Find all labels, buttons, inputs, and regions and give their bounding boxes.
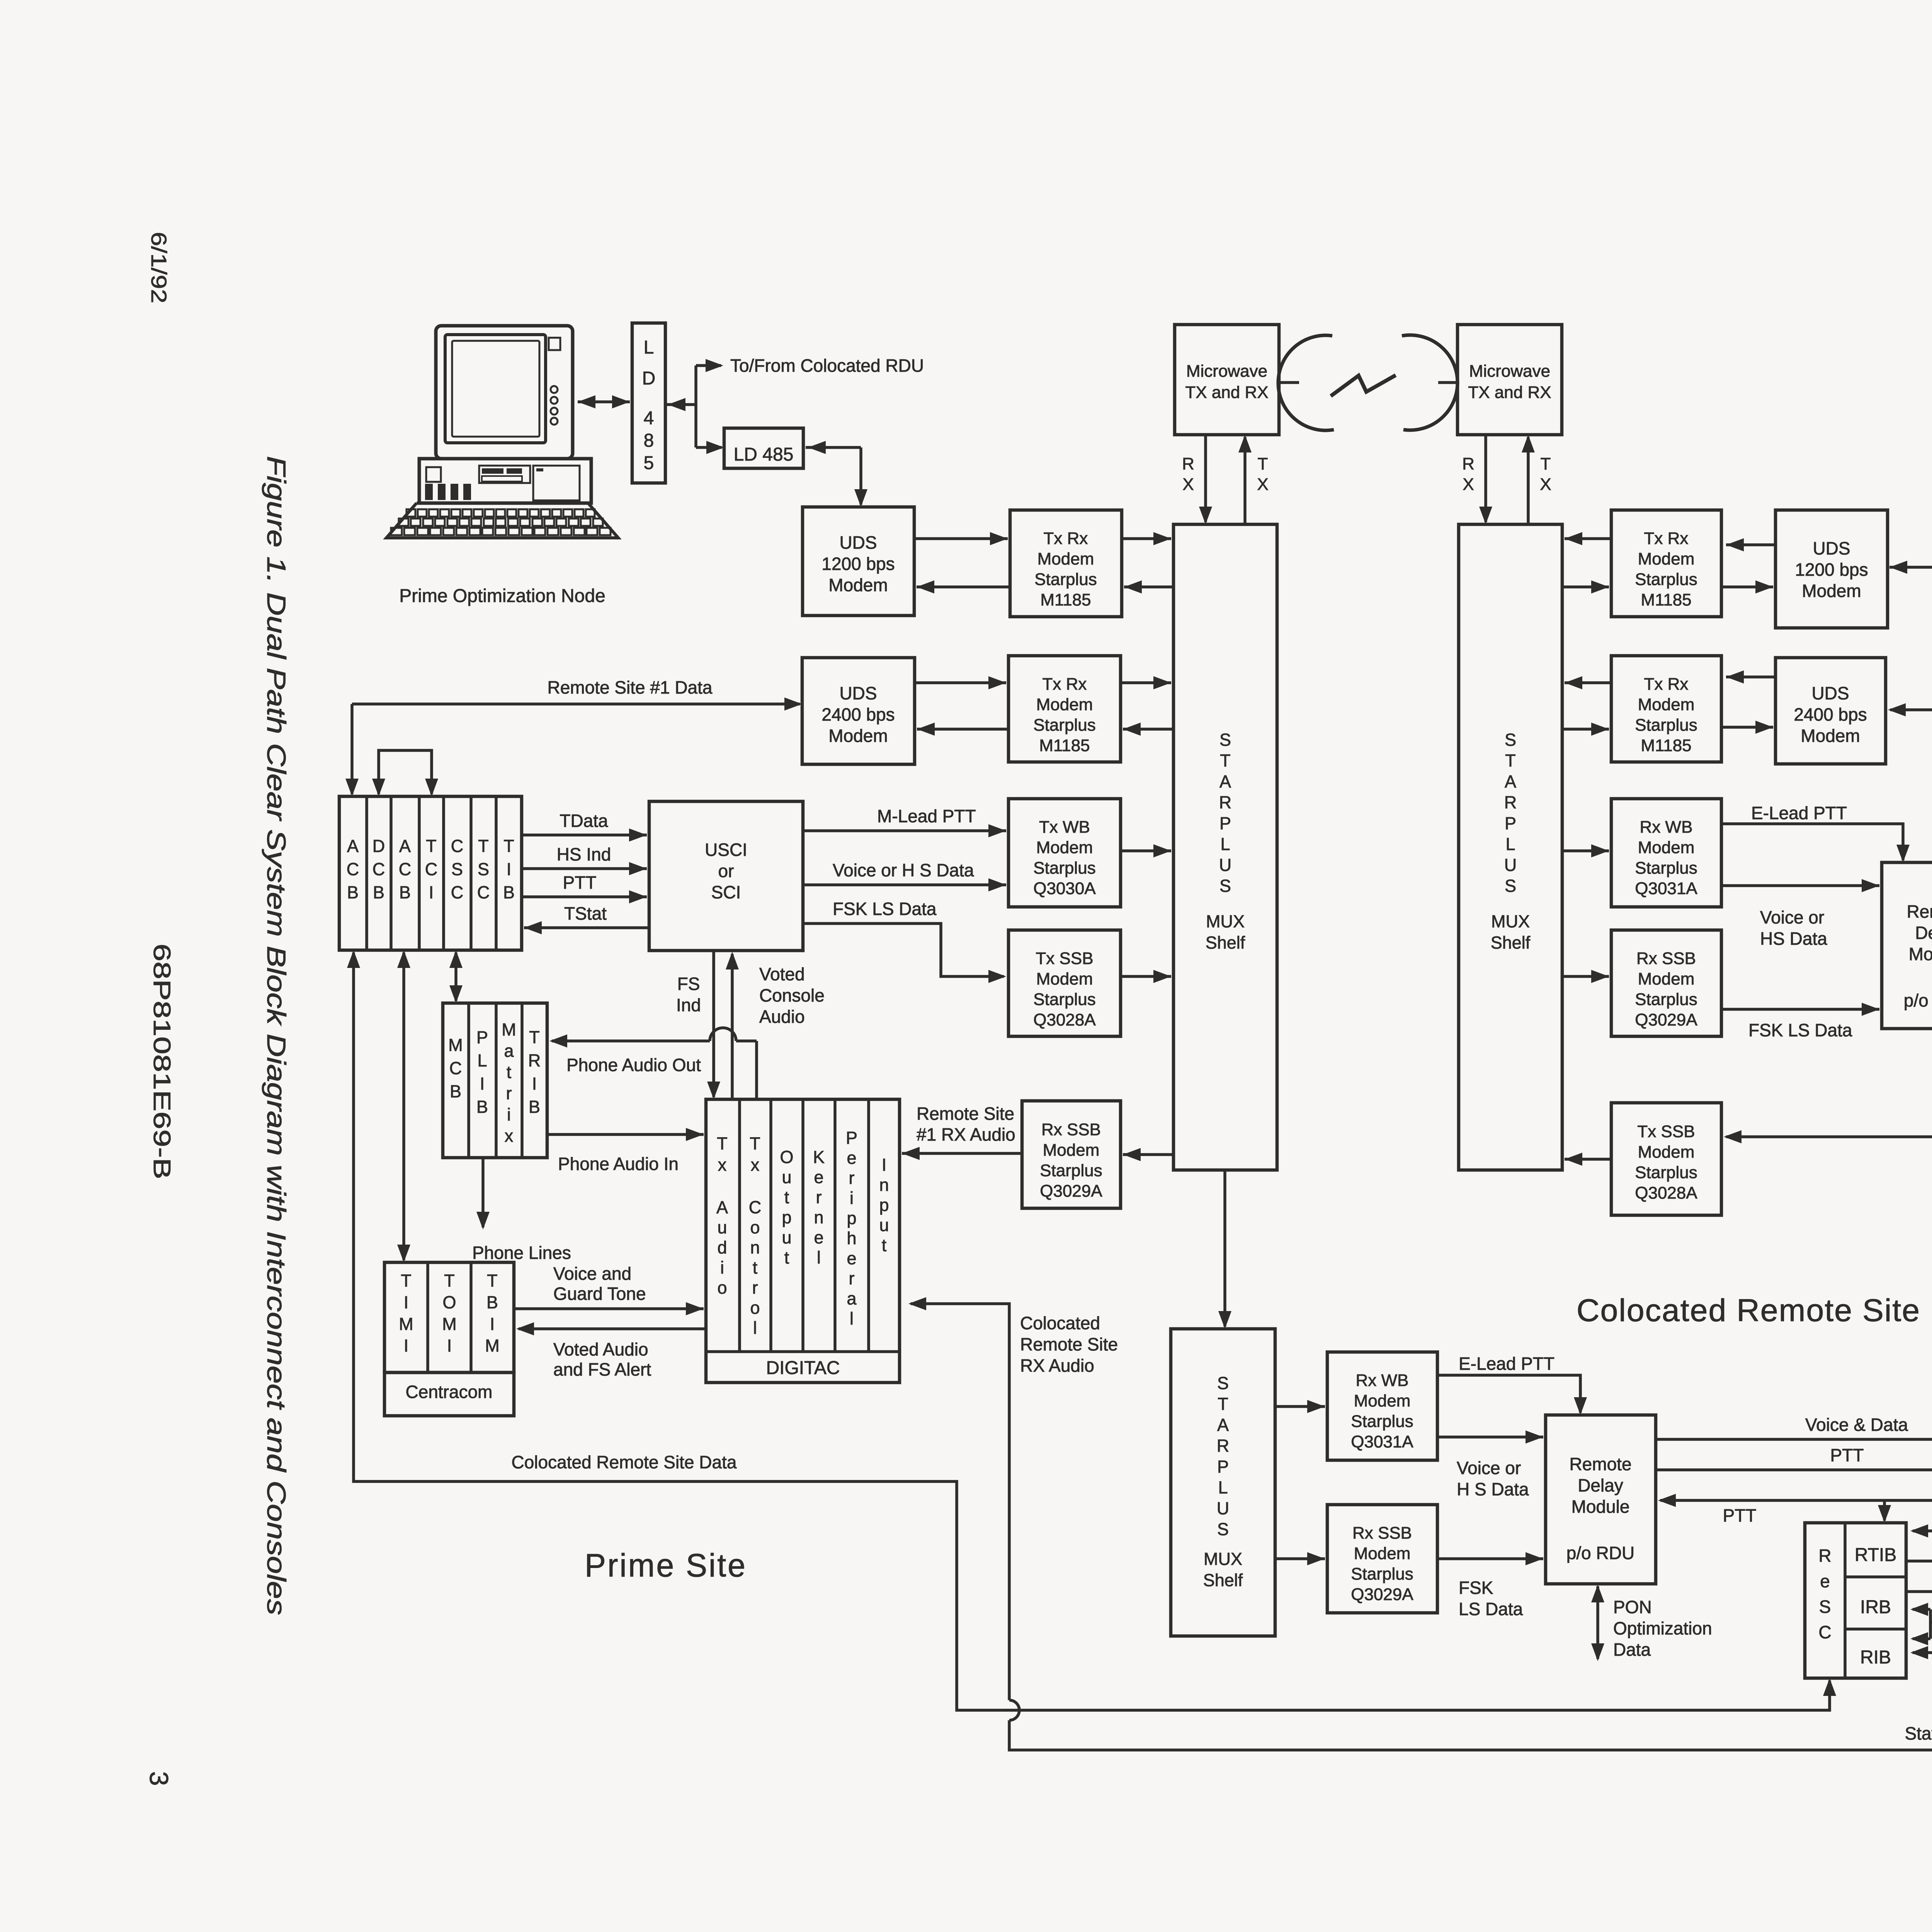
svg-text:P: P [476,1027,488,1047]
svg-text:Starplus: Starplus [1351,1565,1413,1583]
svg-text:Modem: Modem [1043,1141,1100,1160]
svg-text:U: U [1504,855,1517,875]
svg-text:LS Data: LS Data [1459,1599,1523,1619]
svg-text:Rx SSB: Rx SSB [1636,949,1696,968]
svg-text:P: P [1219,813,1231,833]
svg-text:and FS Alert: and FS Alert [553,1359,651,1379]
svg-text:Starplus: Starplus [1040,1161,1102,1180]
svg-text:Rx SSB: Rx SSB [1041,1120,1101,1139]
svg-text:Starplus: Starplus [1033,859,1095,878]
svg-text:B: B [486,1293,498,1312]
svg-text:Starplus: Starplus [1033,716,1095,735]
svg-text:Starplus: Starplus [1635,859,1697,878]
svg-text:T: T [750,1134,760,1153]
svg-text:Modem: Modem [1354,1544,1411,1563]
svg-text:PTT: PTT [1723,1505,1757,1526]
svg-text:X: X [1540,475,1551,494]
svg-text:S: S [1505,730,1516,750]
svg-text:L: L [477,1051,487,1070]
svg-text:H S Data: H S Data [1457,1479,1529,1499]
svg-text:p/o RDU: p/o RDU [1904,990,1932,1010]
svg-text:x: x [505,1126,514,1146]
svg-text:i: i [720,1258,724,1277]
svg-text:t: t [882,1235,887,1255]
svg-text:Voice and: Voice and [553,1264,631,1284]
svg-text:C: C [749,1197,762,1217]
svg-text:l: l [817,1248,821,1267]
svg-text:Remote Site: Remote Site [1020,1334,1118,1354]
svg-text:Modem: Modem [1638,695,1695,714]
svg-text:or: or [718,861,734,881]
svg-text:Guard Tone: Guard Tone [553,1284,646,1304]
svg-text:Colocated Remote Site: Colocated Remote Site [1577,1293,1920,1328]
svg-text:Modem: Modem [828,726,888,746]
svg-text:#1 RX Audio: #1 RX Audio [917,1124,1015,1145]
svg-text:Rx SSB: Rx SSB [1352,1524,1412,1543]
svg-text:M: M [399,1314,413,1334]
svg-text:I: I [882,1155,887,1175]
svg-text:a: a [847,1289,857,1308]
svg-text:O: O [780,1147,793,1167]
svg-text:A: A [1219,772,1231,791]
svg-text:Audio: Audio [759,1007,805,1027]
svg-text:Delay: Delay [1578,1475,1623,1495]
svg-text:Modem: Modem [1354,1391,1411,1410]
svg-text:Q3029A: Q3029A [1040,1182,1102,1201]
svg-text:Modem: Modem [1638,549,1695,568]
svg-text:FSK: FSK [1459,1578,1493,1598]
svg-text:r: r [849,1269,855,1288]
svg-text:B: B [450,1082,461,1101]
svg-text:Phone Lines: Phone Lines [472,1243,571,1263]
svg-text:Status Tone or Voice: Status Tone or Voice [1905,1723,1932,1743]
svg-text:R: R [1504,793,1517,812]
svg-text:A: A [1217,1415,1229,1435]
svg-text:T: T [478,836,489,856]
svg-text:t: t [784,1187,789,1207]
svg-text:S: S [1217,1373,1229,1393]
svg-text:HS Ind: HS Ind [557,844,611,864]
svg-text:r: r [816,1187,822,1207]
svg-text:a: a [504,1041,514,1061]
svg-text:C: C [477,883,490,902]
svg-text:M: M [485,1336,500,1355]
svg-text:B: B [529,1097,540,1117]
svg-text:Voice or: Voice or [1760,907,1824,927]
svg-text:o: o [717,1278,727,1298]
svg-text:L: L [1505,834,1515,854]
svg-text:t: t [753,1258,758,1277]
svg-text:U: U [1217,1498,1230,1518]
svg-text:t: t [507,1062,512,1082]
svg-text:Modem: Modem [1036,838,1093,857]
svg-text:Colocated Remote Site Data: Colocated Remote Site Data [512,1452,737,1472]
svg-text:C: C [425,859,438,879]
svg-text:1200 bps: 1200 bps [821,554,895,574]
svg-text:Modem: Modem [1802,581,1861,601]
svg-text:TData: TData [560,811,608,831]
svg-text:Prime Site: Prime Site [585,1547,747,1583]
svg-text:PON: PON [1613,1597,1652,1617]
svg-text:A: A [399,836,411,856]
svg-text:n: n [814,1207,823,1227]
svg-text:o: o [750,1218,760,1237]
svg-text:Module: Module [1909,944,1932,964]
svg-text:Voted: Voted [759,964,805,984]
svg-text:Shelf: Shelf [1203,1570,1243,1590]
svg-text:e: e [1820,1571,1830,1591]
svg-text:C: C [449,1058,462,1078]
svg-text:R: R [1818,1546,1831,1566]
svg-text:r: r [752,1278,758,1298]
svg-text:S: S [1819,1597,1831,1617]
svg-text:M: M [448,1035,463,1055]
svg-text:T: T [1505,751,1516,770]
svg-text:l: l [753,1318,757,1338]
svg-text:E-Lead PTT: E-Lead PTT [1459,1354,1554,1374]
svg-text:3: 3 [144,1771,173,1786]
svg-text:Ind: Ind [676,995,701,1015]
svg-text:Console: Console [759,985,825,1005]
svg-text:Centracom: Centracom [406,1382,493,1402]
svg-text:Voice or H S Data: Voice or H S Data [833,860,974,880]
svg-text:R: R [1219,793,1232,812]
svg-text:I: I [404,1293,409,1312]
svg-text:R: R [528,1051,541,1070]
svg-text:Modem: Modem [1036,695,1093,714]
svg-text:Modem: Modem [1801,726,1860,746]
svg-text:K: K [813,1147,825,1167]
svg-text:M: M [502,1020,516,1039]
svg-text:Figure 1. Dual Path Clear Sys: Figure 1. Dual Path Clear System Block D… [262,456,291,1615]
svg-text:u: u [782,1228,791,1247]
svg-text:P: P [846,1128,857,1148]
svg-text:Q3028A: Q3028A [1635,1184,1697,1202]
svg-text:Remote: Remote [1569,1454,1631,1474]
svg-text:Q3029A: Q3029A [1351,1585,1413,1604]
svg-text:USCI: USCI [705,840,747,860]
svg-text:Tx Rx: Tx Rx [1044,529,1088,548]
svg-text:T: T [444,1271,455,1291]
svg-text:i: i [850,1188,854,1208]
svg-text:M1185: M1185 [1641,590,1691,609]
svg-text:Starplus: Starplus [1635,1163,1697,1182]
svg-text:R: R [1462,454,1475,473]
svg-text:e: e [814,1167,823,1187]
svg-text:Colocated: Colocated [1020,1313,1100,1333]
svg-text:R: R [1217,1436,1230,1456]
svg-text:MUX: MUX [1491,912,1530,931]
svg-text:To/From Colocated RDU: To/From Colocated RDU [730,355,924,376]
svg-text:Q3031A: Q3031A [1351,1432,1413,1451]
svg-text:Rx WB: Rx WB [1356,1371,1409,1390]
svg-text:I: I [404,1336,409,1355]
svg-text:X: X [1182,475,1194,494]
svg-text:S: S [478,859,489,879]
svg-text:Starplus: Starplus [1034,570,1097,589]
svg-text:Prime Optimization Node: Prime Optimization Node [399,586,605,606]
svg-text:I: I [490,1314,495,1334]
svg-text:RX Audio: RX Audio [1020,1355,1094,1376]
svg-text:UDS: UDS [839,683,877,703]
svg-text:Tx Rx: Tx Rx [1644,529,1689,548]
svg-text:2400 bps: 2400 bps [1794,704,1867,724]
svg-text:e: e [847,1248,856,1268]
svg-text:l: l [850,1309,854,1328]
svg-text:Q3031A: Q3031A [1635,879,1697,898]
svg-text:C: C [451,883,464,902]
svg-text:C: C [372,859,385,879]
svg-text:Microwave: Microwave [1186,362,1267,381]
svg-text:I: I [480,1074,485,1094]
svg-text:Optimization: Optimization [1613,1618,1712,1638]
svg-text:6/1/92: 6/1/92 [147,232,171,303]
svg-text:PTT: PTT [1830,1445,1864,1465]
svg-text:2400 bps: 2400 bps [821,704,895,724]
svg-text:C: C [451,836,464,856]
svg-text:A: A [716,1197,728,1217]
svg-text:I: I [532,1074,537,1094]
svg-text:TX and RX: TX and RX [1468,383,1551,402]
svg-text:Starplus: Starplus [1033,990,1095,1009]
svg-text:UDS: UDS [1811,683,1849,703]
svg-text:p: p [879,1195,889,1215]
svg-text:T: T [426,836,437,856]
svg-text:L: L [1220,834,1230,854]
svg-text:Modem: Modem [1638,969,1695,988]
svg-text:T: T [1258,454,1268,473]
svg-text:Voice or: Voice or [1457,1458,1521,1478]
svg-text:T: T [717,1134,728,1153]
svg-text:n: n [879,1175,889,1195]
svg-text:4: 4 [644,408,654,429]
svg-text:Starplus: Starplus [1635,570,1697,589]
svg-text:FSK LS Data: FSK LS Data [1748,1020,1852,1040]
svg-text:O: O [442,1293,456,1312]
svg-text:DIGITAC: DIGITAC [766,1358,840,1378]
svg-text:X: X [1257,475,1268,494]
svg-text:S: S [451,859,463,879]
svg-text:n: n [750,1238,760,1257]
svg-text:Rx WB: Rx WB [1640,818,1693,837]
svg-text:RTIB: RTIB [1855,1545,1896,1565]
svg-text:B: B [476,1097,488,1117]
svg-text:HS Data: HS Data [1760,929,1827,949]
svg-text:PTT: PTT [563,872,597,893]
svg-text:x: x [718,1155,727,1175]
svg-text:Tx Rx: Tx Rx [1644,675,1689,694]
svg-text:Tx WB: Tx WB [1039,818,1090,837]
svg-text:Phone Audio Out: Phone Audio Out [566,1055,701,1075]
svg-text:Modem: Modem [828,575,888,595]
svg-text:Phone Audio In: Phone Audio In [558,1154,679,1174]
svg-text:LD 485: LD 485 [734,444,794,465]
svg-text:D: D [642,368,656,389]
svg-text:B: B [373,883,384,902]
svg-text:Data: Data [1613,1639,1651,1660]
svg-text:Remote Site: Remote Site [917,1104,1014,1124]
svg-text:Tx Rx: Tx Rx [1043,675,1087,694]
svg-text:Modem: Modem [1036,969,1093,988]
svg-text:Q3029A: Q3029A [1635,1010,1697,1029]
svg-text:I: I [507,859,512,879]
svg-text:D: D [372,836,385,856]
svg-text:Starplus: Starplus [1351,1412,1413,1431]
svg-text:T: T [1220,751,1231,770]
svg-text:Shelf: Shelf [1206,933,1245,952]
svg-text:p/o RDU: p/o RDU [1566,1543,1634,1563]
svg-text:U: U [1219,855,1232,875]
svg-text:Starplus: Starplus [1635,990,1697,1009]
svg-text:P: P [1217,1457,1229,1476]
svg-text:M-Lead PTT: M-Lead PTT [877,806,976,826]
svg-text:S: S [1219,730,1231,750]
svg-text:A: A [347,836,359,856]
svg-text:T: T [1541,454,1551,473]
svg-text:FSK LS Data: FSK LS Data [833,899,937,919]
svg-text:p: p [847,1208,856,1228]
svg-text:r: r [849,1168,855,1188]
svg-text:A: A [1505,772,1516,791]
svg-text:Voice & Data: Voice & Data [1805,1415,1908,1435]
svg-text:Modem: Modem [1638,1143,1695,1162]
svg-text:S: S [1219,876,1231,896]
svg-text:Starplus: Starplus [1635,716,1697,735]
svg-text:Tx SSB: Tx SSB [1036,949,1093,968]
svg-text:p: p [782,1207,791,1227]
svg-text:UDS: UDS [839,532,877,553]
svg-text:RIB: RIB [1860,1647,1891,1668]
svg-text:L: L [644,337,654,358]
svg-text:8: 8 [644,430,654,451]
svg-text:C: C [399,859,412,879]
svg-text:x: x [751,1155,760,1175]
svg-text:Shelf: Shelf [1491,933,1531,952]
svg-text:T: T [401,1271,412,1291]
svg-text:B: B [503,883,515,902]
svg-text:M1185: M1185 [1040,590,1091,609]
svg-text:M: M [442,1314,457,1334]
svg-text:Q3028A: Q3028A [1033,1010,1096,1029]
svg-text:X: X [1463,475,1474,494]
svg-text:S: S [1505,876,1516,896]
svg-text:Tx SSB: Tx SSB [1637,1122,1695,1141]
svg-text:TX and RX: TX and RX [1185,383,1268,402]
svg-text:Module: Module [1571,1497,1630,1517]
svg-text:L: L [1218,1478,1228,1497]
svg-text:Q3030A: Q3030A [1033,879,1096,898]
svg-text:I: I [447,1336,452,1355]
svg-text:C: C [1818,1622,1831,1642]
svg-text:SCI: SCI [711,882,741,902]
svg-text:68P81081E69-B: 68P81081E69-B [148,944,175,1179]
svg-text:TStat: TStat [564,903,607,923]
svg-text:r: r [506,1083,512,1103]
svg-text:i: i [507,1105,511,1124]
svg-text:o: o [750,1298,760,1318]
svg-text:u: u [782,1167,791,1187]
svg-text:Modem: Modem [1037,549,1094,568]
svg-text:Voted Audio: Voted Audio [553,1339,648,1359]
svg-text:u: u [879,1215,889,1235]
svg-text:IRB: IRB [1860,1597,1891,1617]
svg-text:T: T [1218,1394,1228,1414]
svg-text:S: S [1217,1519,1229,1539]
svg-text:h: h [847,1228,856,1248]
svg-text:Modem: Modem [1638,838,1695,857]
svg-text:Delay: Delay [1915,923,1932,943]
svg-text:T: T [487,1271,498,1291]
svg-text:M1185: M1185 [1039,736,1090,755]
svg-text:Microwave: Microwave [1469,362,1550,381]
svg-text:B: B [399,883,411,902]
svg-text:t: t [784,1248,789,1267]
svg-text:M1185: M1185 [1641,736,1691,755]
svg-text:I: I [429,883,434,902]
svg-text:u: u [717,1218,727,1237]
svg-text:5: 5 [644,453,654,473]
svg-text:E-Lead PTT: E-Lead PTT [1751,803,1847,823]
svg-text:UDS: UDS [1813,538,1850,558]
svg-text:C: C [347,859,359,879]
svg-text:e: e [814,1228,823,1247]
svg-text:T: T [503,836,514,856]
svg-text:MUX: MUX [1204,1549,1242,1569]
svg-text:T: T [529,1027,540,1047]
svg-text:Remote: Remote [1906,901,1932,922]
svg-text:e: e [847,1148,856,1168]
svg-text:B: B [347,883,359,902]
svg-text:1200 bps: 1200 bps [1795,560,1868,580]
svg-text:Remote Site #1 Data: Remote Site #1 Data [547,677,712,697]
svg-text:FS: FS [677,974,700,994]
svg-text:P: P [1505,813,1516,833]
svg-text:R: R [1182,454,1194,473]
svg-text:MUX: MUX [1206,912,1245,931]
svg-text:d: d [717,1238,727,1257]
